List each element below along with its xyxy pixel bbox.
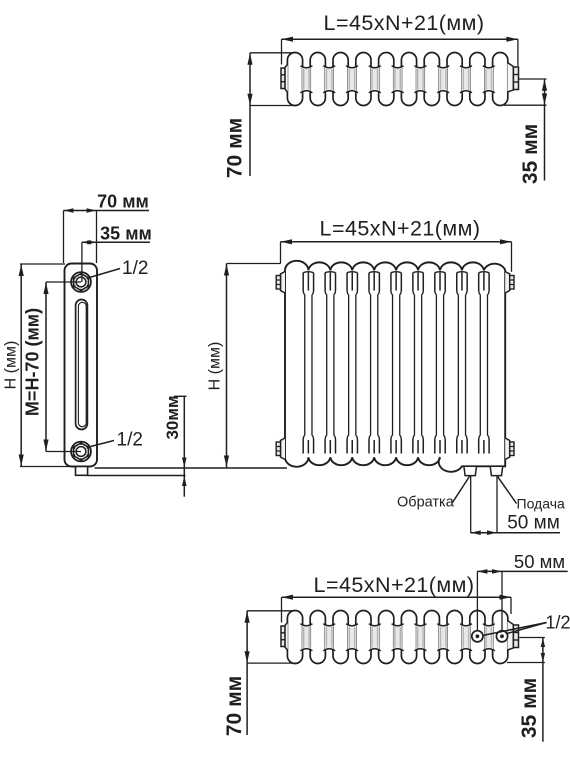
front view: top-right fitting — [505, 272, 514, 294]
svg-text:30мм: 30мм — [163, 395, 182, 439]
dimension 70 мм (side view top) — [64, 192, 150, 264]
label Подача with leader — [498, 476, 565, 511]
dimension L=45xN+21 (top view) — [282, 11, 518, 66]
svg-text:1/2: 1/2 — [117, 430, 143, 451]
label 1/2 (bottom view tappings) with leaders — [483, 613, 570, 636]
top view: right end fitting — [507, 63, 518, 93]
svg-text:Подача: Подача — [517, 496, 565, 512]
front view: bottom-right fitting — [505, 438, 514, 460]
dimension L=45xN+21 (bottom view) — [282, 573, 512, 623]
side view drawing: section body — [65, 264, 98, 467]
svg-text:L=45xN+21(мм): L=45xN+21(мм) — [314, 573, 475, 597]
label 1/2 (top fitting) — [90, 258, 149, 279]
svg-text:L=45xN+21(мм): L=45xN+21(мм) — [324, 11, 485, 35]
svg-text:70 мм: 70 мм — [223, 676, 246, 736]
front view: return pipe nub — [464, 466, 477, 475]
svg-text:Обратка: Обратка — [397, 495, 455, 511]
dimension 50 мм (bottom view) — [477, 551, 567, 631]
bottom view: supply tapping circle — [496, 631, 507, 642]
svg-text:35 мм: 35 мм — [519, 124, 542, 184]
side view: top 1/2 inch fitting nut — [71, 272, 91, 292]
side view: floor bracket foot — [76, 467, 288, 476]
svg-text:M=H-70 (мм): M=H-70 (мм) — [23, 308, 43, 416]
svg-text:1/2: 1/2 — [546, 613, 570, 633]
top view: section connectors — [300, 66, 494, 93]
top view: left end fitting — [281, 64, 288, 93]
dimension 70 мм (top view, left) — [224, 53, 297, 178]
dimension 70 мм (bottom view, left) — [223, 611, 298, 736]
svg-text:70 мм: 70 мм — [224, 118, 247, 178]
dimension H (мм) (side view, left) — [3, 264, 74, 467]
front view: supply pipe nub — [490, 466, 503, 475]
dimension 35 мм (top view, right) — [504, 79, 547, 184]
bottom view: radiator capsule sections — [287, 611, 507, 664]
dimension 50 мм (front view pipe spacing) — [471, 476, 560, 535]
label 1/2 (bottom fitting) — [91, 430, 143, 451]
side view: bottom 1/2 inch fitting nut — [71, 442, 91, 462]
dimension H (мм) (front view, between views) — [207, 264, 281, 468]
svg-text:L=45xN+21(мм): L=45xN+21(мм) — [320, 216, 481, 240]
bottom view: left end fitting — [281, 622, 288, 651]
svg-text:35 мм: 35 мм — [100, 224, 152, 244]
dimension M=H-70 (мм) (side view) — [23, 282, 82, 452]
front view: top-left fitting — [276, 272, 285, 294]
top view: radiator capsule sections — [287, 53, 507, 106]
bottom view: section connectors — [300, 624, 494, 651]
front view: column separation slots — [303, 272, 489, 454]
dimension 35 мм (side view) — [82, 224, 152, 283]
svg-text:50 мм: 50 мм — [507, 513, 560, 534]
side view: central slot groove — [76, 300, 88, 430]
svg-text:70 мм: 70 мм — [97, 192, 149, 212]
bottom view: return tapping circle — [472, 631, 483, 642]
svg-text:H (мм): H (мм) — [207, 342, 224, 391]
front view: bottom-left fitting — [276, 438, 285, 460]
svg-text:H (мм): H (мм) — [3, 341, 20, 390]
svg-text:35 мм: 35 мм — [518, 678, 541, 738]
bottom view: right end fitting — [507, 621, 518, 651]
front view drawing: radiator silhouette with columns — [285, 261, 505, 472]
dimension 30мм (wall bracket offset) — [163, 395, 187, 496]
dimension L=45xN+21 (front view) — [281, 216, 512, 271]
dimension 35 мм (bottom view, right) — [507, 638, 545, 742]
label Обратка with leader — [397, 476, 470, 510]
svg-text:50 мм: 50 мм — [514, 551, 565, 572]
svg-text:1/2: 1/2 — [122, 258, 148, 279]
